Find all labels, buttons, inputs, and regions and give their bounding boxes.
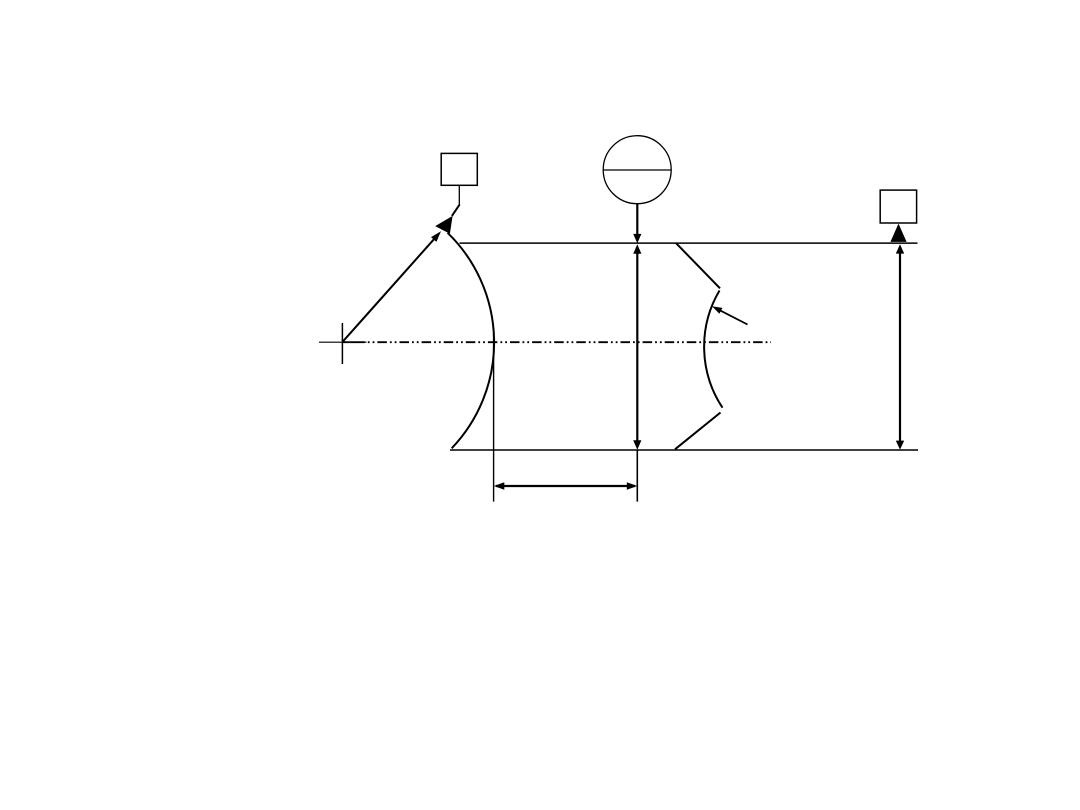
datum feature solid triangle on top edge <box>890 224 906 242</box>
center dimension down arrowhead <box>633 440 641 450</box>
center thickness dimension arrow (horizontal, bottom) <box>496 485 635 487</box>
datum target circle divider line <box>603 169 671 171</box>
right dimension down arrowhead <box>896 441 904 450</box>
callout box (right, datum label) <box>880 190 916 223</box>
right surface bottom bevel line <box>675 413 721 450</box>
right diameter dimension line (x=900) <box>899 247 901 447</box>
center-of-curvature cross vertical tick <box>341 323 343 364</box>
right lens surface arc (concave) <box>704 291 722 408</box>
center dimension up arrowhead <box>633 244 641 254</box>
centerline (optical axis) thin arm through center-of-curvature cross <box>319 341 367 343</box>
leader from datum circle down to top edge <box>636 204 638 235</box>
extension line below center dimension <box>636 450 638 502</box>
leader arrow line pointing at right surface <box>716 308 748 324</box>
bottom dimension left arrowhead <box>494 482 505 489</box>
left lens surface arc <box>448 233 495 448</box>
extension line from left surface vertex (x=493.5) <box>493 333 495 502</box>
leader arrowhead on right surface <box>712 306 722 314</box>
right surface top bevel line <box>676 243 720 288</box>
leader big filled arrowhead at left surface vertex <box>435 216 452 234</box>
leader down arrowhead at top edge <box>633 234 641 243</box>
radius ray arrowhead <box>431 231 441 242</box>
leader line from left box <box>458 185 460 205</box>
bottom dimension right arrowhead <box>627 482 638 489</box>
right dimension up arrowhead <box>896 244 904 253</box>
centerline leading long dash <box>342 341 365 343</box>
radius ray line from cross to left surface <box>343 236 437 342</box>
top edge line of element <box>460 242 918 244</box>
centerline phantom dash-dot-dot pattern <box>368 341 771 343</box>
bottom edge line of element <box>450 449 918 451</box>
datum target circle symbol <box>603 136 671 204</box>
diameter dimension line (center, x=637) <box>636 247 638 447</box>
callout box (left, radius value) <box>441 153 477 185</box>
